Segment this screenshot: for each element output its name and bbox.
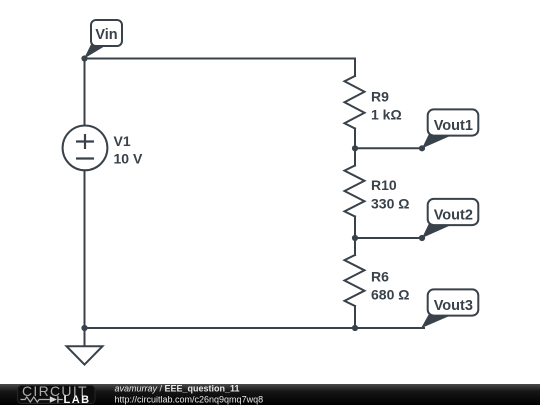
wire bottom horizontal (ground node to Vout3 tap) <box>85 327 425 329</box>
ground symbol <box>67 328 103 365</box>
CircuitLab logo backdrop plate <box>18 386 96 404</box>
wire left vertical bottom (V1 minus terminal to ground node) <box>84 170 86 328</box>
resistor R9 zigzag <box>345 76 365 129</box>
wire stub node to Vout2 dot <box>355 237 422 239</box>
wire left vertical top (Vin node to V1 plus terminal) <box>84 59 86 126</box>
V1 plus sign <box>76 134 94 149</box>
wire stub node to Vout1 dot <box>355 147 422 149</box>
node Vout2 terminal dot <box>419 235 425 241</box>
node between R9 and R10 (Vout1) <box>352 145 358 151</box>
svg-text:R10: R10 <box>371 177 397 193</box>
wire right vertical segment above R9 <box>354 59 356 77</box>
node bottom tee <box>352 325 358 331</box>
svg-text:avamurray / EEE_question_11: avamurray / EEE_question_11 <box>115 384 240 394</box>
svg-text:V1: V1 <box>114 133 131 149</box>
svg-text:Vout2: Vout2 <box>434 207 473 223</box>
node label Vin callout <box>84 20 122 59</box>
node ground tee <box>81 325 87 331</box>
node between R10 and R6 (Vout2) <box>352 235 358 241</box>
svg-text:http://circuitlab.com/c26nq9qm: http://circuitlab.com/c26nq9qmq7wq8 <box>115 395 264 405</box>
voltage source V1 circle <box>63 125 108 170</box>
wire top horizontal Vin to R9 <box>85 58 356 60</box>
svg-text:10 V: 10 V <box>114 151 143 167</box>
wire R10 to node Vout2 <box>354 217 356 256</box>
svg-text:Vout1: Vout1 <box>434 118 473 134</box>
logo diode symbol <box>50 396 57 403</box>
wire R9 to node Vout1 <box>354 129 356 166</box>
svg-text:330 Ω: 330 Ω <box>371 196 409 212</box>
V1 minus sign <box>76 157 94 159</box>
resistor R10 zigzag <box>345 166 365 217</box>
node Vin junction dot <box>81 55 87 61</box>
svg-text:1 kΩ: 1 kΩ <box>371 107 402 123</box>
svg-text:Vin: Vin <box>95 27 117 43</box>
node label Vout1 callout <box>422 109 478 148</box>
node label Vout2 callout <box>422 199 478 238</box>
svg-text:R9: R9 <box>371 89 389 105</box>
svg-text:680 Ω: 680 Ω <box>371 287 409 303</box>
wire R6 to bottom node <box>354 306 356 328</box>
svg-text:LAB: LAB <box>64 394 91 405</box>
svg-text:R6: R6 <box>371 269 389 285</box>
svg-text:Vout3: Vout3 <box>434 298 473 314</box>
logo resistor zigzag <box>21 397 50 402</box>
node label Vout3 callout <box>421 289 478 328</box>
resistor R6 zigzag <box>345 255 365 306</box>
node Vout1 terminal dot <box>419 145 425 151</box>
